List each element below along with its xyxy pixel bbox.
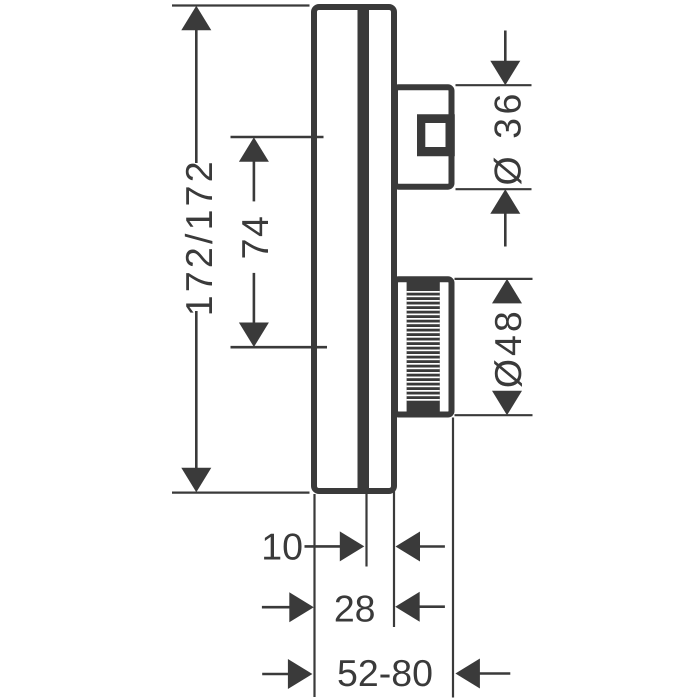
arrowhead 74 bottom [239,323,269,348]
extension line Ø36 top [456,84,532,86]
svg-text:Ø48: Ø48 [487,308,529,388]
svg-text:10: 10 [261,526,303,568]
extension line top (172/172) [172,4,310,6]
arrowhead 172/172 top [181,6,211,31]
escutcheon plate outline [314,7,394,491]
extension line plate back face [313,494,315,697]
arrowhead 10 pointing left [396,532,421,562]
extension tick bottom (74) [231,346,328,349]
dimension line Ø36 lower shaft [504,213,507,247]
tail line 28 right [419,605,445,608]
arrowhead Ø48 pointing down [492,391,522,416]
svg-text:52-80: 52-80 [337,652,433,694]
tail line 52-80 right [479,672,510,675]
leader line 10 [305,545,341,548]
dimension line 172/172 lower shaft [195,311,198,469]
extension tick top (74) [231,136,324,139]
shut-off handle (top knob) outline [395,87,452,186]
extension line Ø36 bottom [456,188,532,190]
thermostat handle (bottom knob) outline [395,279,452,414]
dimension line 172/172 upper shaft [195,29,198,163]
extension line Ø48 top [455,278,533,280]
extension line bottom (172/172) [172,492,310,494]
arrowhead 28 pointing right [289,592,314,622]
dimension line 74 upper shaft [253,161,256,201]
arrowhead Ø36 pointing up [490,189,520,214]
plate divider band [358,5,370,493]
tail line 52-80 left [262,673,289,676]
dimension line Ø36 upper shaft [504,31,507,63]
extension line plate front face [393,490,395,627]
arrowhead 52-80 pointing right [288,659,313,689]
tail line 10 right [419,545,445,548]
tail line 28 left [262,606,291,609]
extension line handle front face [452,418,454,698]
thermostat handle knurled grip [407,279,440,414]
svg-text:Ø 36: Ø 36 [487,90,529,185]
arrowhead 10 pointing right [340,531,365,561]
svg-text:172/172: 172/172 [178,158,220,316]
shut-off handle square boss [417,114,455,156]
extension line Ø48 bottom [455,414,533,416]
arrowhead 28 pointing left [395,592,420,622]
arrowhead Ø48 pointing up [492,279,522,304]
dimension line 74 lower shaft [253,273,256,323]
arrowhead 74 top [239,137,269,162]
svg-text:28: 28 [334,588,376,630]
arrowhead 172/172 bottom [181,468,211,493]
arrowhead Ø36 pointing down [490,61,520,85]
arrowhead 52-80 pointing left [455,659,480,689]
svg-text:74: 74 [234,215,276,260]
extension line plate front of body [365,494,367,567]
